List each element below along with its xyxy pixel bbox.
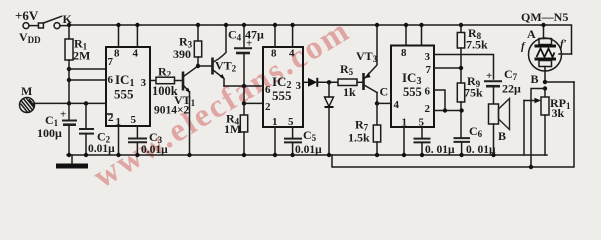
watermark www.elecfans.com <box>87 12 357 196</box>
svg-text:5: 5 <box>288 116 294 128</box>
svg-text:VT3: VT3 <box>356 49 378 64</box>
svg-text:22μ: 22μ <box>502 82 521 96</box>
svg-text:C3: C3 <box>149 130 163 145</box>
svg-text:1M: 1M <box>224 122 241 136</box>
svg-text:VT2: VT2 <box>215 59 237 74</box>
svg-text:100μ: 100μ <box>37 126 62 140</box>
node B <box>543 80 547 84</box>
resistor R4 <box>243 103 245 115</box>
resistor R9 <box>457 83 464 102</box>
svg-text:QM—N5: QM—N5 <box>521 10 568 24</box>
wire R2 to VT1 base <box>175 80 184 82</box>
node K <box>67 23 71 27</box>
wire VT1 emitter to gnd <box>189 92 191 155</box>
svg-text:VDD: VDD <box>19 30 41 45</box>
svg-text:4: 4 <box>394 99 400 111</box>
svg-text:3k: 3k <box>552 106 565 120</box>
lower auxiliary rail <box>332 82 574 167</box>
diode D2 <box>328 82 330 97</box>
resistor R1 <box>65 39 73 60</box>
node mic-C1 <box>67 101 71 105</box>
supply terminal <box>23 23 29 29</box>
svg-text:9014×2: 9014×2 <box>154 105 190 117</box>
capacitor C2 <box>85 103 87 129</box>
svg-text:B: B <box>498 129 506 143</box>
svg-text:1k: 1k <box>343 85 356 99</box>
wire <box>29 25 38 27</box>
wire IC3 pin2 <box>434 110 462 112</box>
capacitor pin5 0.01 <box>414 138 431 140</box>
op IC1 555 box <box>106 47 150 126</box>
svg-text:4: 4 <box>289 48 295 60</box>
op IC3 555 box <box>391 46 434 128</box>
node diode junction <box>327 80 331 84</box>
svg-text:f′: f′ <box>560 38 567 50</box>
wire IC3 pin6 tie <box>434 90 445 111</box>
node B2 <box>543 86 547 90</box>
node C1-gnd <box>67 153 71 157</box>
gas sensor QM-N5 <box>529 38 562 71</box>
capacitor C3 <box>128 138 147 140</box>
op IC2 555 box <box>263 47 303 127</box>
svg-text:C6: C6 <box>469 124 483 139</box>
wire IC3 pin3 to C7 <box>434 55 494 80</box>
svg-text:B: B <box>531 72 539 86</box>
wire node to VT2 base <box>198 65 212 67</box>
wire R3 to node <box>197 57 199 66</box>
svg-text:0. 01μ: 0. 01μ <box>425 144 455 156</box>
svg-text:3: 3 <box>425 51 431 63</box>
svg-text:7: 7 <box>426 64 432 76</box>
svg-text:+6V: +6V <box>15 8 39 23</box>
capacitor C5 <box>284 138 302 140</box>
svg-text:8: 8 <box>114 48 120 60</box>
node pin2 tie <box>443 108 447 112</box>
svg-text:6: 6 <box>425 86 431 98</box>
svg-text:0.01μ: 0.01μ <box>88 143 115 155</box>
node R1-pin7 <box>67 67 71 71</box>
svg-text:+: + <box>486 70 492 82</box>
svg-text:f: f <box>521 41 526 53</box>
svg-text:390: 390 <box>173 47 191 61</box>
svg-text:C4: C4 <box>228 28 242 43</box>
capacitor C6 <box>454 137 471 139</box>
wire B left branch <box>531 89 545 168</box>
svg-text:2: 2 <box>265 101 271 113</box>
resistor R2 <box>156 77 175 84</box>
ground <box>71 155 73 164</box>
svg-text:6: 6 <box>108 74 114 86</box>
wire B right to aux rail <box>545 81 574 83</box>
wire C to IC3 pin4 <box>377 102 391 104</box>
svg-text:5: 5 <box>131 114 137 126</box>
svg-text:4: 4 <box>133 48 139 60</box>
node C4/emitter <box>242 84 246 88</box>
switch K pole <box>54 23 60 29</box>
svg-text:1: 1 <box>272 116 278 128</box>
potentiometer RP1 <box>544 89 546 98</box>
resistor R3 <box>196 23 200 27</box>
svg-text:C7: C7 <box>504 67 518 82</box>
svg-text:8: 8 <box>401 47 407 59</box>
node pin2 tie <box>242 101 246 105</box>
wire <box>60 25 69 27</box>
wire VT2 emitter to IC2 pin6 <box>224 85 263 87</box>
wire IC1 pin3 to R2 <box>150 80 156 82</box>
node pin6 <box>67 78 71 82</box>
svg-text:0.01μ: 0.01μ <box>141 144 168 156</box>
svg-text:8: 8 <box>271 48 277 60</box>
switch K contact <box>38 23 43 28</box>
switch K lever <box>44 16 62 23</box>
svg-text:3: 3 <box>296 80 302 92</box>
svg-text:6: 6 <box>265 84 271 96</box>
wire f' to rail <box>559 53 572 55</box>
svg-text:C5: C5 <box>303 128 317 143</box>
svg-text:555: 555 <box>272 88 292 103</box>
resistor R5 <box>338 79 357 86</box>
wire mic to IC1 <box>34 102 106 104</box>
svg-text:3: 3 <box>141 77 147 89</box>
svg-text:A: A <box>527 27 536 41</box>
bottom ground rail <box>67 154 547 156</box>
svg-text:555: 555 <box>403 85 422 99</box>
svg-text:7.5k: 7.5k <box>466 38 488 52</box>
wire IC3 pin7 <box>434 67 461 69</box>
node R9-C6 <box>459 108 463 112</box>
wire pin6 <box>69 79 106 81</box>
svg-text:75k: 75k <box>464 86 483 100</box>
transistor VT2 <box>211 58 214 75</box>
wire IC2 pin3 to D1 <box>303 81 308 83</box>
wire pin2 <box>244 102 263 104</box>
transistor VT1 <box>182 72 185 91</box>
node C2 top <box>84 101 88 105</box>
pin 4 top wire <box>421 25 423 46</box>
wire <box>68 25 70 39</box>
svg-text:0.01μ: 0.01μ <box>295 144 322 156</box>
wire speaker to gnd <box>493 124 495 155</box>
wire RP1 bottom to gnd rail <box>544 115 546 155</box>
node R8-R9-pin7 <box>459 66 463 70</box>
speaker B <box>489 104 499 124</box>
svg-text:2M: 2M <box>73 49 90 63</box>
wire <box>68 60 70 103</box>
wire D1 to R5 <box>317 81 338 83</box>
transistor VT3 <box>362 73 365 90</box>
svg-text:7: 7 <box>108 56 114 68</box>
diode D1 <box>308 78 317 87</box>
resistor R7 <box>376 103 378 125</box>
RP1 wiper <box>524 100 536 102</box>
svg-text:C: C <box>380 85 389 99</box>
svg-text:R2: R2 <box>158 65 172 80</box>
svg-text:+: + <box>60 109 66 121</box>
top VCC rail <box>69 25 572 54</box>
wire tie 6-2 <box>243 86 245 103</box>
wire R5 to VT3 base <box>357 81 363 83</box>
svg-text:R5: R5 <box>340 62 354 77</box>
resistor R8 <box>459 23 463 27</box>
svg-text:1.5k: 1.5k <box>348 131 370 145</box>
svg-text:M: M <box>21 84 32 98</box>
svg-text:2: 2 <box>425 103 431 115</box>
node VT1 collector / VT2 base <box>196 64 200 68</box>
wire pin7 <box>69 68 106 70</box>
svg-text:555: 555 <box>114 87 134 102</box>
